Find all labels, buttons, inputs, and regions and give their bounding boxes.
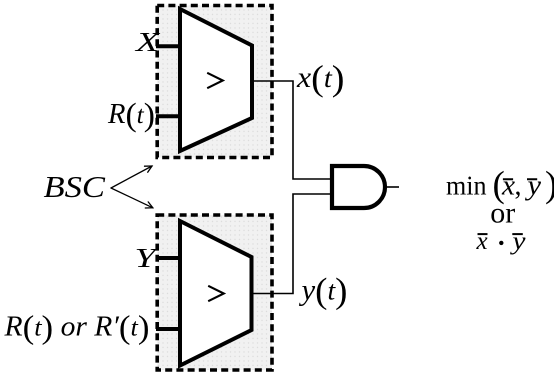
svg-text:y: y (509, 228, 527, 255)
svg-text:or: or (490, 197, 515, 230)
svg-text:,: , (515, 171, 522, 202)
svg-text:): ) (545, 165, 554, 206)
svg-text:min: min (446, 171, 487, 201)
svg-text:y: y (524, 171, 541, 202)
svg-text:x: x (476, 228, 488, 255)
svg-text:R(t): R(t) (107, 98, 155, 134)
svg-text:x(t): x(t) (296, 58, 345, 98)
svg-text:y(t): y(t) (298, 271, 347, 311)
svg-text:BSC: BSC (44, 169, 106, 204)
svg-text:X: X (135, 27, 161, 57)
svg-text:R(t) or R′(t): R(t) or R′(t) (3, 310, 149, 346)
